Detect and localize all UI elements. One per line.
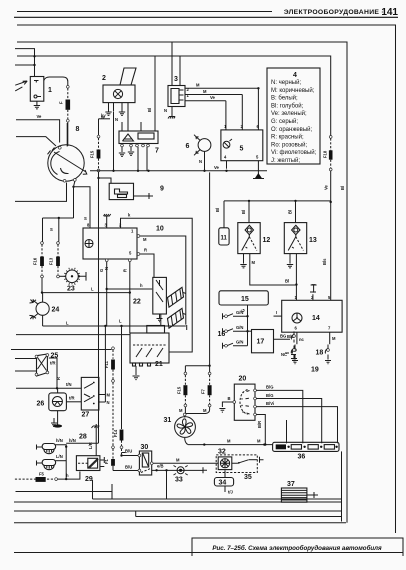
svg-text:3: 3 [174,76,178,83]
svg-text:F7: F7 [201,388,206,394]
svg-text:Ve: Ve [37,114,43,119]
svg-text:ky: ky [101,113,106,118]
svg-text:NC: NC [281,352,287,357]
svg-text:26: 26 [37,401,45,408]
svg-text:L: L [91,287,94,292]
svg-text:7: 7 [328,326,331,331]
svg-text:B/G: B/G [266,393,273,398]
svg-text:L: L [119,319,122,324]
svg-text:N: черный;: N: черный; [271,79,301,86]
svg-text:Bl: Bl [147,108,152,112]
svg-text:N: N [104,267,109,270]
svg-text:M: M [332,336,336,341]
svg-text:R: R [144,248,147,253]
svg-text:Bl: Bl [241,210,246,214]
svg-text:27: 27 [82,412,90,419]
svg-text:2: 2 [102,75,106,82]
svg-text:23: 23 [67,286,75,293]
svg-text:35: 35 [244,474,252,481]
svg-text:B/R: B/R [257,421,262,428]
svg-text:F13: F13 [49,257,54,265]
svg-text:M: M [107,393,111,398]
svg-text:N: N [107,400,110,405]
svg-text:F18: F18 [323,150,328,158]
svg-text:M: M [196,83,200,88]
svg-text:Ve: зеленый;: Ve: зеленый; [271,110,307,117]
svg-text:36: 36 [298,454,306,461]
svg-text:M: коричневый;: M: коричневый; [271,87,315,94]
svg-text:M: M [227,439,231,444]
svg-text:18: 18 [316,350,324,357]
svg-text:6: 6 [186,143,190,150]
svg-text:9: 9 [160,186,164,193]
svg-text:Bl: Bl [288,210,293,214]
svg-text:7: 7 [155,148,159,155]
svg-text:N: N [199,159,202,164]
svg-text:R: R [123,269,128,272]
svg-text:31: 31 [164,417,172,424]
svg-text:t/N: t/N [66,382,72,387]
svg-text:12: 12 [263,237,271,244]
svg-text:R: красный;: R: красный; [271,134,304,141]
svg-text:4: 4 [224,155,227,160]
svg-text:B/Vi: B/Vi [266,401,274,406]
svg-text:R: R [56,377,61,380]
svg-text:1: 1 [295,295,298,300]
svg-text:6: 6 [257,124,260,129]
svg-text:Bl: Bl [285,279,289,284]
svg-text:F15: F15 [177,386,182,394]
svg-text:Ve: Ve [210,95,216,100]
svg-text:L/N: L/N [56,454,63,459]
svg-text:Bls: Bls [322,258,327,265]
svg-text:1: 1 [224,124,227,129]
svg-text:21: 21 [155,361,163,368]
svg-text:20: 20 [239,376,247,383]
svg-text:34: 34 [219,480,227,487]
svg-text:11: 11 [221,236,228,242]
svg-text:F16: F16 [33,257,38,265]
svg-text:L: L [66,321,69,326]
svg-text:Рис. 7–25б. Схема электрообору: Рис. 7–25б. Схема электрооборудования ав… [212,545,382,552]
svg-text:S: S [50,227,53,232]
svg-text:M: M [179,408,183,413]
svg-text:15: 15 [241,296,249,303]
svg-text:F: F [59,101,64,104]
svg-text:M: M [203,408,207,413]
svg-text:F1: F1 [104,458,109,464]
svg-text:17: 17 [257,339,265,346]
svg-text:19: 19 [311,367,319,374]
svg-text:M: M [252,260,256,265]
svg-text:O: оранжевый;: O: оранжевый; [271,126,313,133]
svg-text:h/N: h/N [56,438,63,443]
svg-text:16: 16 [218,331,226,338]
svg-text:t/R: t/R [69,396,75,401]
svg-text:F5: F5 [39,472,45,477]
svg-text:N: N [164,108,167,113]
svg-text:B/U: B/U [125,449,132,454]
svg-text:Bl: Bl [340,186,345,190]
svg-text:33: 33 [175,477,183,484]
svg-text:22: 22 [133,299,141,306]
svg-text:S: S [84,216,87,221]
svg-text:nc: nc [299,337,305,342]
svg-text:G/N: G/N [236,340,243,345]
svg-text:Ve: Ve [214,165,220,170]
svg-text:1: 1 [131,229,134,234]
svg-text:J: желтый;: J: желтый; [271,157,300,164]
svg-text:5: 5 [240,146,244,153]
svg-text:Bl: Bl [215,208,220,212]
svg-text:F11: F11 [104,360,109,368]
svg-text:B/U: B/U [125,465,132,470]
svg-text:6: 6 [295,326,298,331]
svg-text:N: N [115,117,118,122]
svg-text:32: 32 [218,449,226,456]
svg-text:24: 24 [52,307,60,314]
svg-text:B/G: B/G [266,385,273,390]
svg-text:1: 1 [48,87,52,94]
svg-text:4: 4 [293,72,297,79]
svg-text:Ro: розовый;: Ro: розовый; [271,141,307,148]
svg-text:30: 30 [141,444,149,451]
svg-text:k: k [128,213,131,218]
svg-text:13: 13 [309,237,317,244]
svg-text:I: I [276,310,277,315]
svg-text:h/N: h/N [69,438,76,443]
svg-text:141: 141 [381,7,398,18]
svg-text:Vi: фиолетовый;: Vi: фиолетовый; [271,149,317,156]
svg-text:e/B: e/B [157,464,164,469]
svg-text:14: 14 [312,315,320,322]
svg-text:h: h [140,283,143,288]
svg-text:5: 5 [129,251,132,256]
svg-text:G: серый;: G: серый; [271,118,298,125]
svg-text:G/N: G/N [236,325,243,330]
svg-text:t/J: t/J [228,490,234,495]
svg-text:M: M [143,237,147,242]
svg-text:F14: F14 [113,429,118,437]
svg-text:2: 2 [187,87,190,92]
svg-text:37: 37 [287,481,295,488]
svg-text:Bl: голубой;: Bl: голубой; [271,102,304,109]
svg-text:8: 8 [76,126,80,133]
svg-text:5: 5 [256,155,259,160]
svg-text:t/R: t/R [50,361,56,366]
svg-text:M: M [176,457,180,462]
svg-text:29: 29 [85,476,93,483]
svg-text:ЭЛЕКТРООБОРУДОВАНИЕ ·: ЭЛЕКТРООБОРУДОВАНИЕ · [284,9,384,16]
svg-text:h: h [66,473,69,478]
svg-text:M: M [257,439,261,444]
svg-text:F15: F15 [90,150,95,158]
svg-text:BG: BG [280,333,286,338]
svg-text:M: M [203,89,207,94]
svg-text:B: белый;: B: белый; [271,95,298,102]
svg-text:Ve: Ve [324,184,329,190]
svg-text:B: B [228,396,231,401]
svg-text:28: 28 [79,434,87,441]
svg-text:2: 2 [241,124,244,129]
svg-text:G/N: G/N [236,310,243,315]
svg-text:1: 1 [187,93,190,98]
svg-text:10: 10 [156,226,164,233]
